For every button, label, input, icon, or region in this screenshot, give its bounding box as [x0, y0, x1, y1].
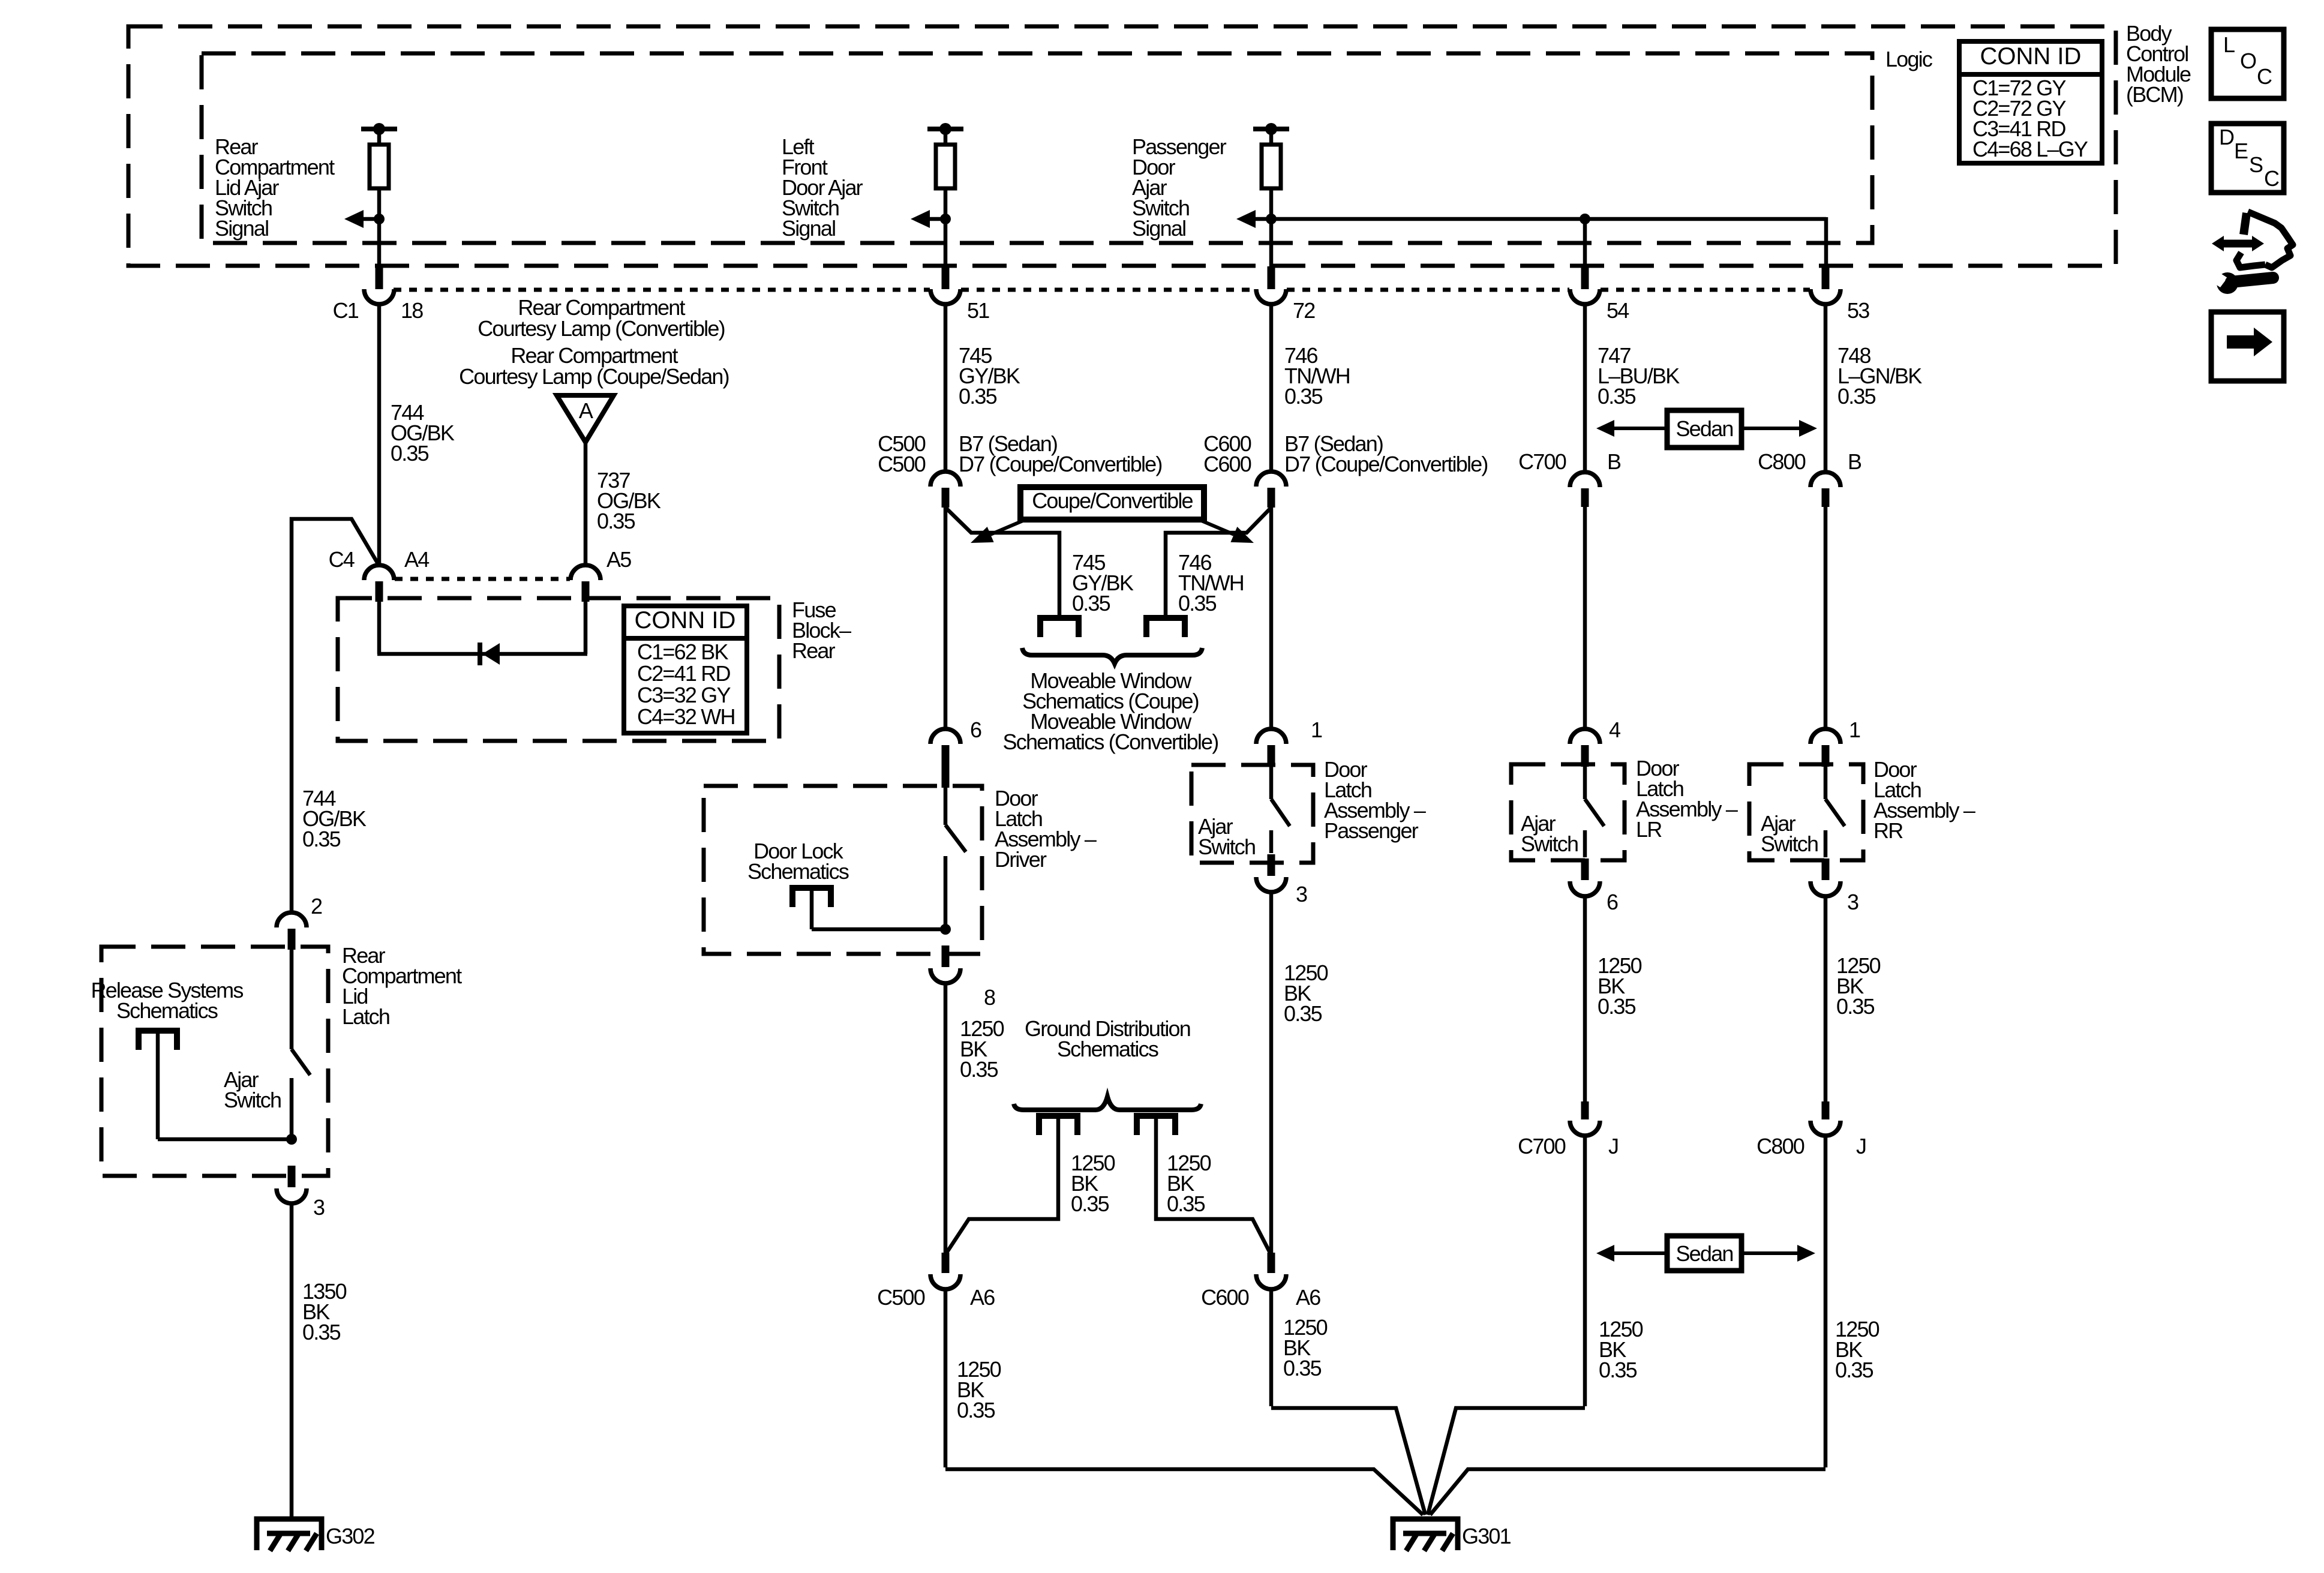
svg-text:0.35: 0.35	[1598, 384, 1636, 409]
svg-text:E: E	[2234, 139, 2248, 163]
svg-text:A6: A6	[970, 1285, 995, 1310]
svg-text:A5: A5	[606, 547, 631, 572]
svg-text:0.35: 0.35	[302, 1320, 341, 1344]
svg-text:0.35: 0.35	[1284, 1001, 1322, 1026]
svg-text:Schematics (Convertible): Schematics (Convertible)	[1003, 730, 1218, 754]
svg-text:8: 8	[984, 985, 995, 1010]
svg-text:0.35: 0.35	[960, 1057, 998, 1082]
svg-text:C1: C1	[333, 298, 359, 323]
svg-text:RR: RR	[1873, 818, 1903, 843]
svg-text:A6: A6	[1296, 1285, 1320, 1310]
svg-text:G302: G302	[326, 1524, 375, 1548]
svg-text:6: 6	[1607, 890, 1618, 914]
svg-text:A: A	[579, 398, 593, 423]
svg-text:S: S	[2249, 152, 2263, 177]
svg-text:Passenger: Passenger	[1324, 818, 1419, 843]
svg-text:0.35: 0.35	[391, 441, 429, 466]
svg-text:LR: LR	[1636, 817, 1662, 842]
svg-text:D: D	[2219, 125, 2234, 149]
svg-text:C4: C4	[329, 547, 355, 572]
svg-text:0.35: 0.35	[1599, 1358, 1637, 1382]
svg-text:C3=32 GY: C3=32 GY	[637, 683, 731, 707]
svg-text:L: L	[2223, 32, 2235, 57]
svg-text:Rear: Rear	[792, 638, 836, 663]
svg-text:C800: C800	[1756, 1134, 1804, 1158]
svg-text:0.35: 0.35	[959, 384, 997, 409]
svg-text:0.35: 0.35	[1283, 1356, 1322, 1380]
svg-text:Schematics: Schematics	[747, 859, 849, 884]
svg-text:J: J	[1608, 1134, 1618, 1158]
svg-text:0.35: 0.35	[1598, 994, 1636, 1019]
svg-text:1: 1	[1849, 718, 1860, 742]
svg-text:51: 51	[967, 298, 989, 323]
svg-text:Driver: Driver	[995, 847, 1047, 872]
svg-text:C800: C800	[1758, 449, 1806, 474]
svg-text:18: 18	[401, 298, 423, 323]
svg-text:0.35: 0.35	[1072, 591, 1110, 616]
svg-text:0.35: 0.35	[1837, 384, 1876, 409]
svg-text:CONN ID: CONN ID	[635, 607, 736, 634]
svg-text:Sedan: Sedan	[1676, 1241, 1733, 1266]
svg-text:C2=41 RD: C2=41 RD	[637, 661, 730, 686]
svg-text:Logic: Logic	[1885, 47, 1933, 71]
svg-text:C700: C700	[1518, 1134, 1566, 1158]
svg-text:(BCM): (BCM)	[2126, 82, 2183, 107]
svg-text:2: 2	[311, 894, 322, 918]
svg-text:Signal: Signal	[215, 216, 268, 241]
svg-text:0.35: 0.35	[1071, 1191, 1109, 1216]
svg-text:Switch: Switch	[1521, 831, 1578, 856]
svg-text:Courtesy Lamp (Coupe/Sedan): Courtesy Lamp (Coupe/Sedan)	[459, 364, 729, 389]
svg-text:C4=32 WH: C4=32 WH	[637, 704, 735, 729]
svg-text:C600: C600	[1201, 1285, 1249, 1310]
svg-text:Switch: Switch	[1761, 831, 1818, 856]
svg-text:Switch: Switch	[224, 1088, 281, 1112]
svg-text:0.35: 0.35	[957, 1398, 995, 1422]
svg-text:3: 3	[313, 1195, 325, 1220]
svg-text:Signal: Signal	[1132, 216, 1185, 241]
svg-text:A4: A4	[404, 547, 429, 572]
svg-text:3: 3	[1296, 882, 1307, 906]
svg-text:C600: C600	[1203, 452, 1251, 476]
svg-text:Schematics: Schematics	[1057, 1037, 1158, 1061]
svg-text:Coupe/Convertible: Coupe/Convertible	[1032, 488, 1193, 513]
svg-text:B: B	[1848, 449, 1861, 474]
svg-text:0.35: 0.35	[597, 509, 635, 533]
svg-text:C: C	[2264, 166, 2279, 191]
svg-text:Sedan: Sedan	[1676, 416, 1733, 441]
svg-text:B: B	[1607, 449, 1621, 474]
svg-text:0.35: 0.35	[302, 827, 341, 851]
svg-text:J: J	[1856, 1134, 1866, 1158]
svg-text:0.35: 0.35	[1284, 384, 1323, 409]
svg-text:3: 3	[1847, 890, 1858, 914]
svg-text:0.35: 0.35	[1836, 994, 1875, 1019]
svg-text:0.35: 0.35	[1178, 591, 1217, 616]
svg-text:Latch: Latch	[342, 1004, 389, 1029]
svg-text:0.35: 0.35	[1167, 1191, 1205, 1216]
svg-text:G301: G301	[1462, 1524, 1511, 1548]
svg-text:Courtesy Lamp (Convertible): Courtesy Lamp (Convertible)	[478, 316, 725, 341]
svg-text:C1=62 BK: C1=62 BK	[637, 640, 728, 664]
svg-text:54: 54	[1607, 298, 1629, 323]
svg-text:C4=68 L–GY: C4=68 L–GY	[1972, 137, 2088, 161]
svg-text:53: 53	[1847, 298, 1869, 323]
svg-text:Signal: Signal	[782, 216, 835, 241]
svg-text:C700: C700	[1518, 449, 1566, 474]
svg-text:CONN ID: CONN ID	[1980, 43, 2082, 70]
svg-text:72: 72	[1293, 298, 1315, 323]
svg-text:4: 4	[1609, 718, 1620, 742]
svg-text:C: C	[2257, 64, 2272, 89]
svg-text:D7 (Coupe/Convertible): D7 (Coupe/Convertible)	[1284, 452, 1488, 476]
svg-text:0.35: 0.35	[1835, 1358, 1873, 1382]
svg-text:1: 1	[1311, 718, 1322, 742]
svg-text:C500: C500	[877, 1285, 925, 1310]
svg-text:6: 6	[970, 718, 981, 742]
svg-text:Switch: Switch	[1198, 834, 1255, 859]
svg-text:C500: C500	[878, 452, 926, 476]
svg-text:Schematics: Schematics	[116, 998, 218, 1023]
svg-text:D7 (Coupe/Convertible): D7 (Coupe/Convertible)	[959, 452, 1162, 476]
svg-text:O: O	[2240, 49, 2256, 73]
